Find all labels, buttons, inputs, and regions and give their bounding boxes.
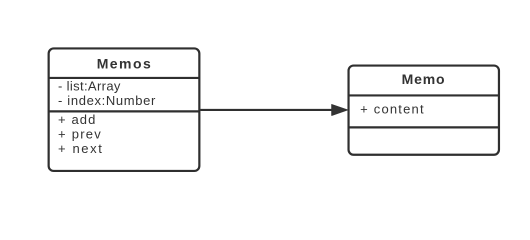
svg-text:Memos: Memos (97, 55, 152, 71)
class Memos title divider (49, 77, 200, 79)
arrowhead (332, 105, 348, 116)
class Memo attributes divider (349, 126, 499, 128)
class Memos attributes divider (49, 110, 200, 112)
association wire Memos to Memo (200, 109, 333, 111)
svg-text:- index:Number: - index:Number (58, 93, 156, 108)
svg-text:+ next: + next (58, 141, 103, 156)
svg-text:+ add: + add (58, 112, 96, 127)
svg-text:+ prev: + prev (58, 126, 102, 141)
class Memo box (349, 66, 499, 155)
class Memos box (49, 48, 200, 171)
svg-text:Memo: Memo (402, 71, 446, 87)
svg-text:- list:Array: - list:Array (58, 79, 121, 94)
svg-text:+ content: + content (360, 101, 425, 116)
class Memo title divider (349, 94, 499, 96)
